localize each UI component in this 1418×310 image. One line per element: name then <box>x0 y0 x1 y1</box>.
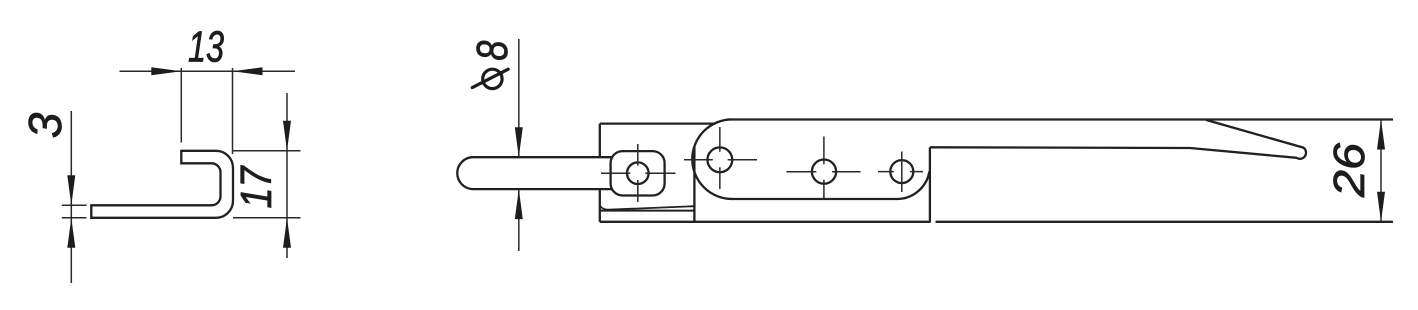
svg-text:26: 26 <box>1325 142 1374 198</box>
arrow phi8 top <box>515 127 523 157</box>
arrow dim3 top <box>67 175 75 205</box>
rod (pin) <box>457 157 611 189</box>
arrow dim26 bottom <box>1377 192 1385 222</box>
dim 3 lines <box>62 111 87 283</box>
crosshair C4 <box>878 152 923 193</box>
arrow dim13 right <box>233 67 263 75</box>
J-profile outline (left section view) <box>91 151 233 218</box>
arrow dim13 left <box>151 67 181 75</box>
phi symbol slash <box>472 69 508 87</box>
crosshair C3 <box>787 137 861 200</box>
arrow phi8 bottom <box>515 189 523 219</box>
base plate top edge <box>600 122 714 124</box>
arrow dim26 top <box>1377 120 1385 150</box>
blade top edge <box>930 146 1190 149</box>
base plate bottom edge <box>600 221 931 223</box>
arrow dim17 top <box>283 121 291 151</box>
svg-text:3: 3 <box>19 112 71 138</box>
arrow dim3 bottom <box>67 218 75 248</box>
dim phi8 lines <box>518 39 520 251</box>
base plate bend seam <box>600 206 695 210</box>
base plate left edge (lower) <box>599 189 601 222</box>
svg-text:13: 13 <box>188 22 224 71</box>
blade bottom edge <box>936 221 1394 223</box>
svg-text:8: 8 <box>468 40 517 60</box>
dim 17 lines <box>233 93 301 258</box>
base plate left edge (upper) <box>599 124 601 158</box>
pivot circle C2 <box>707 147 732 172</box>
lever stadium left arc <box>692 119 732 199</box>
svg-text:17: 17 <box>232 165 281 208</box>
circle C3 <box>812 160 836 184</box>
lever bottom edge with fillet <box>731 172 930 200</box>
dim 26 line <box>1380 120 1382 222</box>
dim 13 lines <box>120 68 296 154</box>
step vertical edge <box>929 147 931 222</box>
rounded square hole <box>611 151 665 195</box>
base plate right edge <box>693 146 695 222</box>
crosshair C2 <box>684 127 757 189</box>
arrow dim17 bottom <box>283 218 291 248</box>
lever top edge <box>732 118 1393 120</box>
circle C4 <box>890 160 913 183</box>
crosshair C1 <box>601 144 676 202</box>
blade taper tongue <box>1190 120 1306 159</box>
base plate fold line <box>600 210 695 212</box>
phi symbol circle <box>483 69 502 88</box>
hole circle C1 <box>627 162 649 184</box>
